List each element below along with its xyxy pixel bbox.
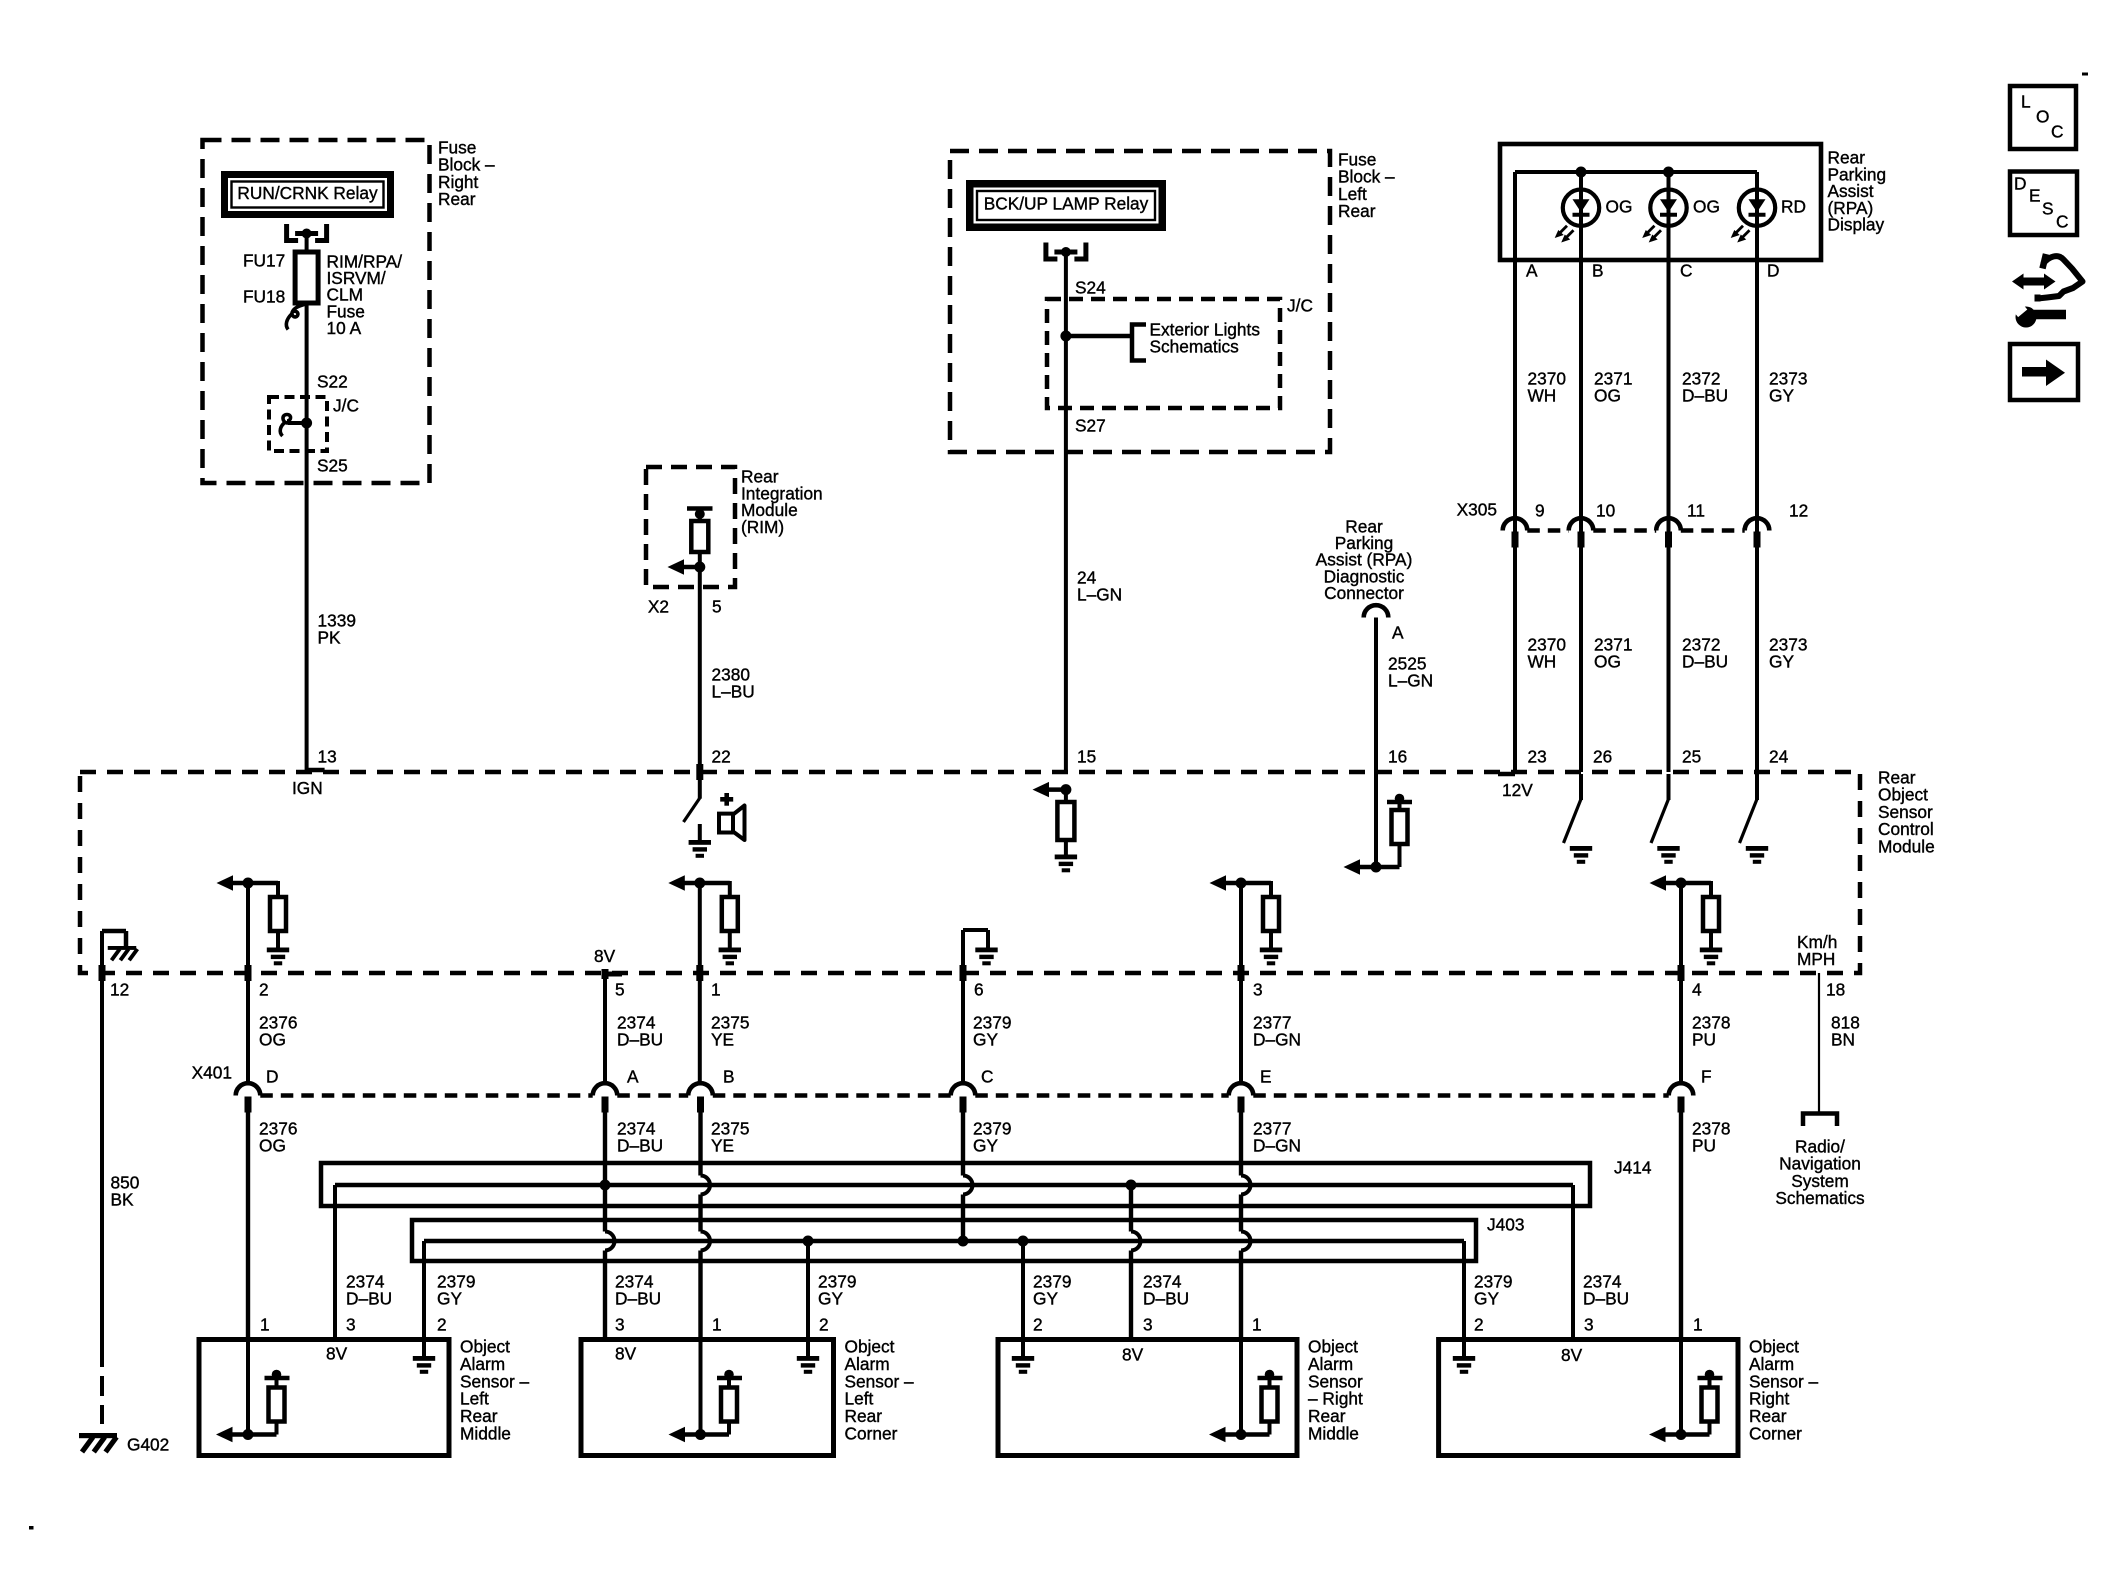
svg-text:12V: 12V	[1502, 780, 1533, 800]
svg-text:FU18: FU18	[243, 287, 285, 307]
svg-text:S22: S22	[317, 372, 348, 392]
svg-text:3: 3	[1584, 1315, 1594, 1335]
svg-text:OG: OG	[259, 1136, 286, 1156]
svg-text:2: 2	[819, 1315, 829, 1335]
svg-text:IGN: IGN	[292, 778, 323, 798]
svg-text:D–BU: D–BU	[615, 1289, 661, 1309]
svg-text:2: 2	[259, 980, 269, 1000]
svg-text:Middle: Middle	[1308, 1424, 1359, 1444]
svg-text:A: A	[1392, 623, 1404, 643]
svg-text:X401: X401	[192, 1063, 232, 1083]
svg-text:E: E	[2029, 186, 2041, 206]
svg-text:Rear: Rear	[438, 189, 476, 209]
svg-text:3: 3	[1143, 1315, 1153, 1335]
svg-text:3: 3	[1253, 980, 1263, 1000]
svg-text:B: B	[723, 1067, 735, 1087]
svg-text:1: 1	[260, 1315, 270, 1335]
svg-text:23: 23	[1528, 747, 1547, 767]
svg-text:S27: S27	[1075, 416, 1106, 436]
svg-text:J403: J403	[1487, 1215, 1524, 1235]
svg-text:24: 24	[1769, 747, 1789, 767]
svg-text:BCK/UP LAMP Relay: BCK/UP LAMP Relay	[984, 194, 1149, 214]
svg-text:(RIM): (RIM)	[741, 517, 784, 537]
svg-text:BN: BN	[1831, 1030, 1855, 1050]
svg-text:C: C	[2051, 122, 2063, 142]
svg-text:3: 3	[346, 1315, 356, 1335]
svg-text:S25: S25	[317, 456, 348, 476]
svg-text:1: 1	[711, 980, 721, 1000]
svg-text:GY: GY	[437, 1289, 462, 1309]
svg-text:GY: GY	[1769, 386, 1794, 406]
svg-text:3: 3	[615, 1315, 625, 1335]
svg-text:5: 5	[615, 980, 625, 1000]
svg-text:J414: J414	[1614, 1158, 1652, 1178]
svg-text:G402: G402	[127, 1435, 169, 1455]
svg-text:F: F	[1701, 1067, 1712, 1087]
svg-text:11: 11	[1687, 501, 1705, 521]
svg-text:Connector: Connector	[1324, 583, 1404, 603]
svg-text:Rear: Rear	[1338, 201, 1376, 221]
svg-text:GY: GY	[1474, 1289, 1499, 1309]
svg-text:2: 2	[1033, 1315, 1043, 1335]
svg-text:D–BU: D–BU	[1682, 652, 1728, 672]
svg-text:YE: YE	[711, 1030, 734, 1050]
svg-text:16: 16	[1388, 747, 1407, 767]
svg-text:D–BU: D–BU	[1682, 386, 1728, 406]
svg-text:5: 5	[712, 597, 722, 617]
svg-text:S24: S24	[1075, 278, 1106, 298]
svg-text:D: D	[2014, 174, 2026, 194]
svg-text:Module: Module	[1878, 836, 1935, 856]
svg-text:Corner: Corner	[845, 1424, 898, 1444]
svg-text:12: 12	[1789, 501, 1808, 521]
svg-text:D–BU: D–BU	[346, 1289, 392, 1309]
svg-text:8V: 8V	[326, 1344, 348, 1364]
svg-text:C: C	[1680, 261, 1692, 281]
svg-text:18: 18	[1826, 980, 1845, 1000]
svg-text:PU: PU	[1692, 1136, 1716, 1156]
svg-text:D–GN: D–GN	[1253, 1136, 1301, 1156]
svg-text:E: E	[1260, 1067, 1272, 1087]
svg-text:Corner: Corner	[1749, 1424, 1802, 1444]
svg-text:15: 15	[1077, 747, 1096, 767]
svg-text:Middle: Middle	[460, 1424, 511, 1444]
svg-text:Schematics: Schematics	[1150, 337, 1240, 357]
svg-text:PU: PU	[1692, 1030, 1716, 1050]
svg-text:2: 2	[437, 1315, 447, 1335]
svg-text:D–BU: D–BU	[1583, 1289, 1629, 1309]
svg-text:RD: RD	[1781, 197, 1806, 217]
svg-text:10: 10	[1596, 501, 1615, 521]
svg-text:OG: OG	[1693, 197, 1720, 217]
svg-text:10 A: 10 A	[327, 318, 362, 338]
svg-text:L–GN: L–GN	[1388, 671, 1433, 691]
svg-text:MPH: MPH	[1797, 949, 1835, 969]
svg-text:D–BU: D–BU	[617, 1136, 663, 1156]
svg-text:J/C: J/C	[333, 396, 359, 416]
svg-text:OG: OG	[1594, 652, 1621, 672]
svg-text:BK: BK	[111, 1190, 135, 1210]
svg-text:L: L	[2021, 92, 2031, 112]
svg-text:J/C: J/C	[1287, 296, 1313, 316]
svg-text:PK: PK	[318, 628, 342, 648]
svg-text:GY: GY	[1033, 1289, 1058, 1309]
svg-text:D: D	[266, 1067, 278, 1087]
svg-text:OG: OG	[1606, 197, 1633, 217]
svg-text:D–BU: D–BU	[617, 1030, 663, 1050]
svg-text:13: 13	[318, 747, 337, 767]
svg-text:D–BU: D–BU	[1143, 1289, 1189, 1309]
svg-text:22: 22	[712, 747, 731, 767]
svg-text:4: 4	[1692, 980, 1702, 1000]
svg-text:O: O	[2036, 107, 2049, 127]
svg-text:C: C	[981, 1067, 993, 1087]
svg-text:9: 9	[1535, 501, 1545, 521]
svg-text:L–BU: L–BU	[712, 682, 755, 702]
svg-text:6: 6	[974, 980, 984, 1000]
svg-text:YE: YE	[711, 1136, 734, 1156]
svg-text:FU17: FU17	[243, 251, 285, 271]
svg-text:8V: 8V	[1122, 1345, 1144, 1365]
svg-text:D–GN: D–GN	[1253, 1030, 1301, 1050]
svg-text:A: A	[1526, 261, 1538, 281]
svg-text:GY: GY	[818, 1289, 843, 1309]
svg-text:WH: WH	[1528, 386, 1557, 406]
svg-text:X2: X2	[648, 597, 669, 617]
svg-text:1: 1	[1252, 1315, 1262, 1335]
svg-text:L–GN: L–GN	[1077, 585, 1122, 605]
svg-text:C: C	[2056, 212, 2068, 232]
svg-text:Display: Display	[1828, 215, 1885, 235]
svg-text:OG: OG	[1594, 386, 1621, 406]
svg-text:Schematics: Schematics	[1775, 1188, 1865, 1208]
svg-text:8V: 8V	[594, 946, 616, 966]
svg-text:A: A	[627, 1067, 639, 1087]
svg-text:8V: 8V	[615, 1344, 637, 1364]
svg-text:B: B	[1592, 261, 1604, 281]
svg-text:12: 12	[110, 980, 129, 1000]
svg-text:26: 26	[1593, 747, 1612, 767]
svg-text:2: 2	[1474, 1315, 1484, 1335]
svg-text:GY: GY	[973, 1030, 998, 1050]
svg-text:RUN/CRNK Relay: RUN/CRNK Relay	[237, 183, 378, 203]
svg-text:X305: X305	[1457, 500, 1497, 520]
svg-text:WH: WH	[1528, 652, 1557, 672]
svg-text:OG: OG	[259, 1030, 286, 1050]
svg-text:GY: GY	[1769, 652, 1794, 672]
svg-text:GY: GY	[973, 1136, 998, 1156]
svg-text:S: S	[2042, 199, 2054, 219]
svg-text:1: 1	[712, 1315, 722, 1335]
svg-text:8V: 8V	[1561, 1345, 1583, 1365]
svg-text:1: 1	[1693, 1315, 1703, 1335]
svg-text:D: D	[1767, 261, 1779, 281]
svg-text:25: 25	[1682, 747, 1701, 767]
